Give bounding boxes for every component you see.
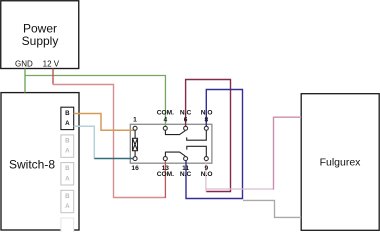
wire pink riser to Fulgurex	[274, 117, 302, 189]
svg-text:B: B	[65, 110, 70, 117]
wire pale blue A down	[74, 126, 95, 158]
relay top N.O contact (pin 8)	[187, 130, 207, 140]
wire maroon pin 6 to pin 9	[186, 80, 231, 192]
power supply box	[1, 1, 79, 69]
relay pin number labels bottom	[131, 165, 208, 172]
svg-text:Supply: Supply	[22, 34, 59, 48]
relay contact labels bottom: COM. N.C N.O	[157, 171, 213, 178]
svg-text:N.C: N.C	[180, 109, 192, 116]
svg-text:B: B	[65, 165, 70, 172]
svg-text:GND: GND	[15, 59, 33, 68]
relay coil K1	[133, 130, 138, 157]
svg-text:16: 16	[131, 165, 139, 172]
wire pink to Fulgurex	[206, 188, 274, 190]
svg-text:N.C: N.C	[180, 171, 192, 178]
terminal pair 5 (faint, clipped)	[61, 218, 74, 240]
relay bottom N.O contact (pin 9)	[187, 146, 207, 156]
svg-text:4: 4	[163, 116, 167, 123]
svg-text:Switch-8: Switch-8	[9, 157, 55, 171]
svg-text:N.O: N.O	[201, 109, 213, 116]
Switch-8 box	[1, 93, 79, 230]
svg-text:A: A	[65, 203, 70, 210]
svg-text:A: A	[65, 148, 70, 155]
relay top armature (pin 4 to pin 6, N.C closed)	[165, 130, 185, 134]
wire pink pin 9 to Fulgurex	[205, 161, 207, 192]
svg-text:B: B	[65, 138, 70, 145]
svg-text:6: 6	[184, 116, 188, 123]
wire green GND to Switch-8	[24, 69, 26, 93]
wire gray navy net to Fulgurex	[243, 200, 301, 217]
wire green GND branch to relay pin 4	[25, 76, 165, 127]
svg-text:B: B	[65, 193, 70, 200]
svg-text:A: A	[65, 120, 70, 127]
terminal pair 2	[61, 135, 74, 157]
svg-text:COM.: COM.	[157, 109, 174, 116]
wire red riser to relay pin 13	[164, 161, 166, 198]
Fulgurex box	[301, 94, 379, 231]
svg-text:COM.: COM.	[157, 171, 174, 178]
svg-text:1: 1	[133, 116, 137, 123]
terminal pair 4	[61, 190, 74, 212]
relay K1 body	[130, 124, 212, 163]
svg-text:12 V: 12 V	[43, 59, 60, 68]
wire red from 12 V	[52, 69, 54, 85]
svg-text:8: 8	[204, 116, 208, 123]
relay pin number labels top	[133, 116, 208, 123]
svg-text:A: A	[65, 175, 70, 182]
wire teal to relay pin 16	[94, 158, 133, 160]
relay pin circles bottom row: 16, 13, 11, 9	[133, 157, 208, 161]
wire orange B to relay pin 1	[74, 114, 135, 131]
terminal pair 3	[61, 163, 74, 185]
relay pin circles top row: 1, 4, 6, 8	[133, 126, 208, 130]
relay contact labels top: COM. N.C N.O	[157, 109, 213, 116]
terminal pair 1 (active B/A)	[61, 107, 74, 129]
svg-text:N.O: N.O	[201, 171, 213, 178]
wire light red 12 V to relay pin 13	[53, 85, 165, 198]
wire navy pin 8 to pin 11	[186, 90, 243, 199]
relay bottom armature (pin 13 to pin 11, N.C closed)	[165, 152, 185, 157]
svg-text:Fulgurex: Fulgurex	[320, 157, 362, 169]
